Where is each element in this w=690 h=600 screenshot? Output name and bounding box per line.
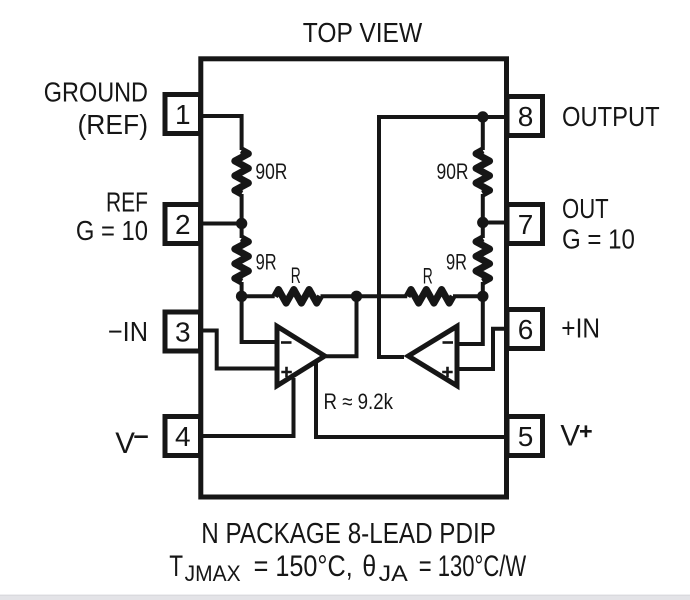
pin 6 box	[507, 310, 543, 349]
svg-text:R: R	[291, 263, 301, 288]
node junction dot pin8	[477, 111, 488, 122]
svg-text:3: 3	[175, 317, 191, 348]
pin 1 box	[165, 95, 201, 134]
wire pin4 to A1 V- pin	[203, 378, 294, 436]
svg-text:V: V	[560, 419, 580, 452]
svg-text:OUTPUT: OUTPUT	[562, 101, 660, 132]
wire 9R to rail right	[481, 282, 485, 296]
svg-text:G = 10: G = 10	[562, 223, 635, 254]
svg-text:= 150°C,: = 150°C,	[254, 550, 353, 583]
svg-text:R: R	[423, 263, 433, 288]
svg-text:7: 7	[518, 209, 534, 240]
pin 2 box	[165, 205, 201, 244]
pin 1 label GROUND (REF)	[44, 76, 148, 140]
pin 8 box	[507, 97, 543, 136]
pin 7 label OUT G=10	[562, 193, 635, 255]
node junction dot right chain at pin7	[477, 217, 488, 228]
svg-text:6: 6	[518, 314, 534, 345]
svg-text:(REF): (REF)	[78, 109, 149, 140]
svg-text:+IN: +IN	[561, 312, 600, 343]
pin 3 box	[165, 312, 201, 351]
wire 90R to 9R right	[481, 194, 485, 238]
svg-text:N PACKAGE 8-LEAD PDIP: N PACKAGE 8-LEAD PDIP	[201, 518, 496, 550]
node junction dot left rail	[236, 291, 247, 302]
wire pin2 stub	[203, 222, 242, 226]
svg-text:9R: 9R	[256, 250, 277, 275]
svg-text:V: V	[115, 427, 135, 460]
pin 5 box	[507, 417, 543, 456]
op-amp A2	[404, 322, 460, 390]
svg-text:−IN: −IN	[108, 316, 148, 347]
resistor 9R left	[235, 238, 249, 282]
svg-text:GROUND: GROUND	[44, 76, 148, 107]
resistor 90R left	[235, 150, 249, 194]
resistor 9R right	[476, 238, 490, 282]
pin 2 label REF G=10	[76, 187, 148, 246]
wire right node to A2 minus input	[456, 296, 483, 344]
pin 5 label V+	[560, 419, 591, 452]
wire A1 output to center node	[326, 296, 357, 356]
svg-text:1: 1	[175, 99, 191, 130]
wire pin6 to A2 plus input	[456, 329, 507, 369]
svg-text:2: 2	[175, 209, 191, 240]
wire pin3 to A1 plus input	[203, 331, 278, 369]
wire rail center segment	[321, 294, 408, 298]
wire pin5 to A1 V+ pin	[316, 363, 505, 437]
svg-text:9R: 9R	[446, 250, 467, 275]
op-amp A1	[275, 322, 330, 390]
svg-text:G = 10: G = 10	[76, 215, 148, 246]
wire left node to A1 minus input	[242, 296, 278, 342]
wire rail left node to R	[242, 294, 275, 298]
node junction dot right rail	[477, 291, 488, 302]
node junction dot left chain at pin2	[236, 218, 247, 229]
svg-text:T: T	[169, 550, 183, 583]
wire pin7 stub	[483, 221, 507, 225]
wire 9R to rail left	[240, 282, 244, 296]
svg-text:JA: JA	[379, 561, 409, 586]
svg-text:8: 8	[518, 101, 534, 132]
svg-text:REF: REF	[106, 187, 148, 218]
resistor R left	[275, 290, 321, 304]
svg-text:= 130°C/W: = 130°C/W	[419, 550, 527, 583]
pin 7 box	[507, 205, 543, 244]
wire pin8 to A2 output (down the center)	[379, 117, 507, 357]
svg-text:θ: θ	[362, 550, 376, 583]
svg-text:JMAX: JMAX	[185, 561, 241, 586]
wire pin1 to top of 90R	[203, 116, 242, 150]
svg-text:OUT: OUT	[562, 193, 609, 224]
wire 90R to 9R left	[240, 194, 244, 238]
pin 4 label V-	[115, 427, 148, 460]
svg-text:TOP VIEW: TOP VIEW	[303, 17, 423, 48]
wire pin8 node to 90R right	[481, 117, 485, 150]
wire rail R to right node	[453, 294, 483, 298]
pin 4 box	[165, 417, 201, 456]
svg-text:90R: 90R	[437, 159, 469, 184]
resistor R right	[407, 290, 453, 304]
svg-text:90R: 90R	[255, 159, 287, 184]
resistor 90R right	[476, 150, 490, 194]
IC package body U1	[201, 59, 507, 497]
svg-text:5: 5	[518, 421, 534, 452]
caption thermal data TJMAX and thetaJA	[169, 550, 526, 586]
node junction dot center (A1 output to rail)	[351, 291, 362, 302]
svg-text:R ≈ 9.2k: R ≈ 9.2k	[324, 389, 394, 414]
svg-text:4: 4	[175, 421, 191, 452]
